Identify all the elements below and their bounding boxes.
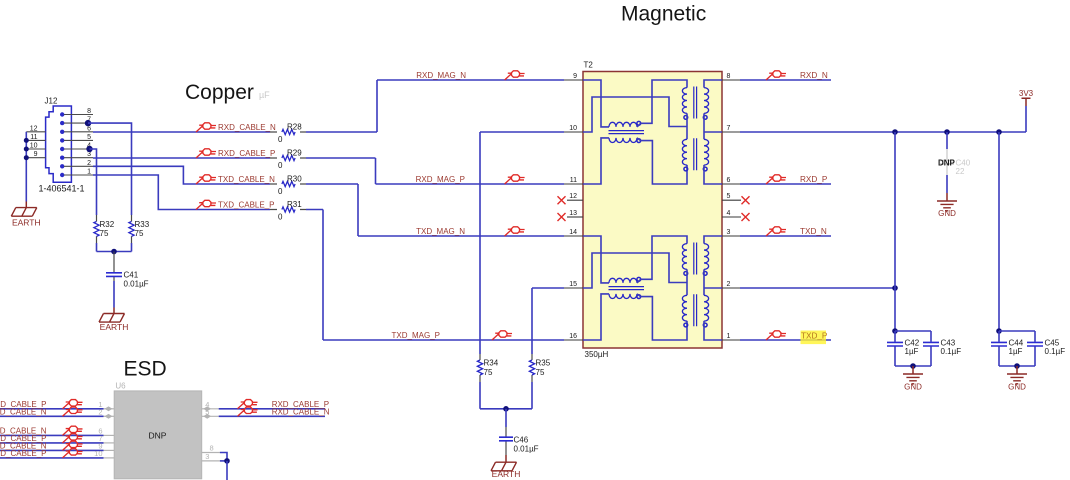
T2 pin 14 stub <box>564 235 583 237</box>
T2 pin 1 stub <box>722 339 740 341</box>
transformer primary upper winding <box>682 88 687 114</box>
resistor R30 0 ohm <box>270 183 306 185</box>
secondary upper polarity dot <box>703 116 707 120</box>
wire T2 pin 6 RXD_P <box>740 183 831 185</box>
junction J12 pin 11 on bus <box>24 138 29 143</box>
wire J12 pin 6 to R28 (RXD_CABLE_N) <box>93 131 270 133</box>
T2 pin 2 stub <box>722 287 740 289</box>
svg-text:TXD_CABLE_N: TXD_CABLE_N <box>218 175 275 184</box>
J12 pin 2 contact dot <box>60 164 64 168</box>
U6 pin 4 stub <box>202 408 219 410</box>
U6 pin 4 bidirectional marker <box>203 406 211 411</box>
off-page flag RXD_CABLE_N right <box>238 407 258 416</box>
svg-text:R35: R35 <box>536 358 551 367</box>
resistor R35 75 <box>531 354 533 382</box>
capacitor C42 1uF <box>894 331 896 342</box>
svg-text:DNP: DNP <box>149 430 167 440</box>
svg-text:GND: GND <box>938 209 956 218</box>
svg-text:1µF: 1µF <box>905 347 919 356</box>
J12 pin 4 contact dot <box>60 147 64 151</box>
svg-text:T2: T2 <box>584 61 594 70</box>
GND symbol below C42/C43 <box>903 374 923 384</box>
transformer core lower <box>694 138 697 170</box>
svg-text:TXD_CABLE_P: TXD_CABLE_P <box>218 201 274 210</box>
junction pin2/C42 vertical <box>892 285 898 291</box>
U6 pin 5 bidirectional marker <box>203 414 211 419</box>
svg-text:3: 3 <box>727 229 731 236</box>
wire R35 bottom <box>531 382 533 409</box>
wire C42/C43 bottom bridge <box>895 365 931 367</box>
capacitor C43 0.1uF <box>923 342 939 346</box>
wire choke bottom to transformer primary bottom <box>637 294 687 340</box>
wire riser RXD_CABLE_N to MAG row <box>376 80 378 132</box>
wire to bottom edge <box>226 461 228 480</box>
svg-text:R29: R29 <box>287 148 302 157</box>
EARTH symbol at J12 <box>11 208 37 217</box>
svg-text:2: 2 <box>87 160 91 167</box>
svg-text:RXD_P: RXD_P <box>800 175 828 184</box>
off-page flag RXD_CABLE_N (U6 pin 2) <box>63 407 83 416</box>
wire T2 pin 7 rail to 3V3 <box>740 106 1026 132</box>
suppressor U6 body (DNP) <box>114 391 202 479</box>
GND symbol below C40 <box>937 201 957 211</box>
connector J12 body <box>46 106 72 182</box>
resistor R32 75 <box>96 215 98 243</box>
svg-text:10: 10 <box>569 125 577 132</box>
secondary lower polarity dot <box>703 323 707 327</box>
wire R29 output <box>306 157 376 159</box>
svg-text:GND: GND <box>904 383 922 392</box>
resistor R29 0 ohm <box>270 157 306 159</box>
transformer primary lower winding <box>682 139 687 165</box>
svg-text:2: 2 <box>727 281 731 288</box>
no-connect X on T2 pin 12 <box>558 196 566 204</box>
primary upper polarity dot <box>684 272 688 276</box>
svg-text:RXD_MAG_P: RXD_MAG_P <box>416 175 465 184</box>
capacitor C46 0.01uF <box>505 409 507 427</box>
svg-text:9: 9 <box>34 151 38 158</box>
svg-text:R31: R31 <box>287 200 302 209</box>
svg-text:C46: C46 <box>514 435 529 444</box>
svg-text:1-406541-1: 1-406541-1 <box>39 184 85 194</box>
junction at J12 pin 7 <box>85 120 91 126</box>
transformer secondary upper winding <box>704 244 709 270</box>
wire riser TXD_CABLE_P to MAG row <box>322 210 324 341</box>
svg-text:2: 2 <box>98 408 102 417</box>
resistor R34 75 <box>479 354 481 382</box>
svg-text:1: 1 <box>87 169 91 176</box>
svg-text:12: 12 <box>569 193 577 200</box>
junction J12 pin 10 on bus <box>24 147 29 152</box>
svg-text:RXD_N: RXD_N <box>800 71 828 80</box>
wire RXD_CABLE_N to U6 pin 9 <box>0 449 104 451</box>
wire U6 pin 4 RXD_CABLE_P <box>219 408 325 410</box>
svg-text:11: 11 <box>30 134 37 141</box>
svg-text:R30: R30 <box>287 174 302 183</box>
junction J12 pin 9 on bus <box>24 155 29 160</box>
junction caps to GND <box>910 363 916 369</box>
J12 pin 1 stub <box>64 174 93 176</box>
J12 pin 8 contact dot <box>60 112 64 116</box>
wire T2 pin 10 center-tap down to R34 <box>480 132 564 354</box>
svg-text:R34: R34 <box>484 358 499 367</box>
primary lower polarity dot <box>684 323 688 327</box>
J12 pin 4 stub <box>64 148 93 150</box>
choke line-side bottom winding <box>609 294 637 299</box>
T2 pin 11 stub <box>564 183 583 185</box>
junction rail/C40 branch <box>944 129 950 135</box>
svg-text:J12: J12 <box>45 97 58 106</box>
choke line-side bottom winding <box>609 138 637 143</box>
T2 pin 6 stub <box>722 183 740 185</box>
svg-text:TXD_N: TXD_N <box>800 227 827 236</box>
wire J12 pin 2 to R30 (TXD_CABLE_N) <box>93 166 270 184</box>
wire C46 to earth <box>505 446 507 455</box>
wire TXD_MAG_P row <box>323 339 564 341</box>
transformer secondary upper winding <box>704 88 709 114</box>
resistor R28 0 ohm <box>270 131 306 133</box>
wire secondary center tap to pin 2 <box>704 269 722 295</box>
svg-text:9: 9 <box>573 73 577 80</box>
wire secondary center tap to pin 7 <box>704 113 722 139</box>
svg-text:C41: C41 <box>124 271 139 280</box>
svg-text:5: 5 <box>727 193 731 200</box>
off-page flag TXD_MAG_N <box>505 227 525 236</box>
highlight on TXD_P <box>801 331 827 345</box>
wire T2 pin 3 TXD_N <box>740 235 831 237</box>
choke top polarity dot <box>637 277 641 281</box>
J12 pin 2 stub <box>64 165 93 167</box>
svg-text:75: 75 <box>135 229 144 238</box>
svg-text:EARTH: EARTH <box>100 322 129 332</box>
svg-text:12: 12 <box>30 125 38 132</box>
off-page flag RXD_CABLE_P (U6 pin 10) <box>63 449 83 458</box>
wire T2 pin 2 to C42 branch <box>740 287 895 289</box>
T2 pin 15 stub <box>564 287 583 289</box>
svg-text:11: 11 <box>570 177 577 184</box>
wire J12 shield bus to earth <box>25 132 27 202</box>
choke bottom polarity dot <box>637 139 641 143</box>
wire R33 bottom <box>131 243 133 252</box>
J12 pin 7 stub <box>64 122 93 124</box>
svg-text:3V3: 3V3 <box>1019 89 1034 98</box>
choke line-side top winding <box>609 278 637 283</box>
svg-text:6: 6 <box>87 125 91 132</box>
off-page flag RXD_MAG_P <box>505 175 525 184</box>
wire T2 pin 15 center-tap down to R35 <box>532 288 564 354</box>
wire choke top to transformer primary top <box>637 80 687 127</box>
capacitor C44 1uF <box>998 331 1000 342</box>
transformer primary lower winding <box>682 295 687 321</box>
secondary upper polarity dot <box>703 272 707 276</box>
svg-text:RXD_CABLE_P: RXD_CABLE_P <box>218 149 275 158</box>
svg-text:4: 4 <box>727 210 731 217</box>
wire R34 bottom <box>479 382 481 409</box>
svg-text:10: 10 <box>30 143 38 150</box>
junction R32/R33 bridge <box>111 249 117 255</box>
choke bottom polarity dot <box>637 295 641 299</box>
wire RXD_MAG_N row <box>377 79 564 81</box>
off-page flag TXD_P <box>766 331 786 340</box>
wire C44/C45 bottom bridge <box>999 365 1035 367</box>
transformer primary upper winding <box>682 244 687 270</box>
wire U6 pin 3 <box>220 460 227 462</box>
off-page flag RXD_MAG_N <box>505 71 525 80</box>
svg-text:0.01µF: 0.01µF <box>514 445 539 454</box>
svg-text:0.01µF: 0.01µF <box>124 280 149 289</box>
svg-text:U6: U6 <box>115 382 126 391</box>
svg-text:GND: GND <box>1008 383 1026 392</box>
svg-text:0: 0 <box>278 213 283 222</box>
wire C41 to earth <box>113 281 115 308</box>
svg-text:RXD_CABLE_N: RXD_CABLE_N <box>0 408 47 417</box>
wire T2 pin 16 to choke bottom <box>583 294 609 340</box>
svg-text:0: 0 <box>278 187 283 196</box>
svg-text:15: 15 <box>569 281 577 288</box>
svg-text:0.1µF: 0.1µF <box>941 347 962 356</box>
wire C42/C43 top bridge <box>895 331 931 342</box>
off-page flag RXD_P <box>766 175 786 184</box>
off-page flag TXD_CABLE_N (U6 pin 6) <box>63 426 83 435</box>
svg-text:R32: R32 <box>100 220 115 229</box>
U6 pin 5 stub <box>202 415 219 417</box>
junction C42 top bridge <box>892 328 898 334</box>
svg-text:0.1µF: 0.1µF <box>1045 347 1066 356</box>
resistor R33 75 <box>131 215 133 243</box>
wire T2 pin 9 to choke <box>583 80 609 127</box>
svg-text:5: 5 <box>87 134 91 141</box>
svg-text:Magnetic: Magnetic <box>621 3 706 26</box>
junction at J12 pin 4 <box>86 146 92 152</box>
off-page flag RXD_N <box>766 71 786 80</box>
T2 pin 9 stub <box>564 79 583 81</box>
wire J12 pin 1 to R31 (TXD_CABLE_P) <box>93 175 270 210</box>
svg-text:DNP: DNP <box>938 158 956 167</box>
svg-text:R28: R28 <box>287 122 302 131</box>
junction rail/C42 branch <box>892 129 898 135</box>
transformer secondary lower winding <box>704 139 709 165</box>
wire U6 pin 8 down to pin 3 net <box>220 453 227 461</box>
choke core <box>609 287 645 290</box>
transformer core lower <box>694 294 697 326</box>
off-page flag TXD_CABLE_P <box>196 200 216 209</box>
no-connect X on T2 pin 5 <box>742 196 750 204</box>
wire T2 pin 8 RXD_N <box>740 79 831 81</box>
svg-text:8: 8 <box>87 108 91 115</box>
svg-text:µF: µF <box>259 90 270 100</box>
J12 pin 11 stub <box>26 139 45 141</box>
primary upper polarity dot <box>684 116 688 120</box>
J12 pin 12 stub <box>26 131 45 133</box>
junction U6 pins 8/3 <box>224 458 230 464</box>
svg-text:5: 5 <box>205 408 209 417</box>
wire TXD_CABLE_N to U6 pin 6 <box>0 434 104 436</box>
no-connect X on T2 pin 4 <box>742 213 750 221</box>
wire rail down to C44/C45 <box>998 132 1000 331</box>
J12 pin 5 stub <box>64 139 93 141</box>
transformer core upper <box>694 87 697 119</box>
wire RXD_CABLE_P to U6 pin 1 <box>0 408 104 410</box>
U6 pin 2 bidirectional marker <box>105 414 113 419</box>
U6 pin 8 stub <box>202 452 220 454</box>
EARTH symbol below C46 <box>491 462 517 471</box>
choke line-side top winding <box>609 122 637 127</box>
off-page flag RXD_CABLE_P right <box>238 400 258 409</box>
off-page flag TXD_MAG_P <box>492 331 512 340</box>
wire choke bottom to transformer primary bottom <box>637 138 687 184</box>
svg-text:ESD: ESD <box>124 358 167 381</box>
transformer secondary lower winding <box>704 295 709 321</box>
junction C44 top bridge <box>996 328 1002 334</box>
wire TXD_MAG_N row <box>358 235 564 237</box>
wire C44/C45 top bridge <box>999 331 1035 342</box>
T2 pin 4 stub <box>722 216 741 218</box>
U6 pin 1 bidirectional marker <box>105 406 113 411</box>
svg-text:TXD_MAG_P: TXD_MAG_P <box>392 331 440 340</box>
GND symbol below C44/C45 <box>1007 374 1027 384</box>
svg-text:75: 75 <box>536 368 545 377</box>
off-page flag TXD_CABLE_N <box>196 175 216 184</box>
off-page flag RXD_CABLE_P (U6 pin 1) <box>63 400 83 409</box>
wire J12 pin4 to R32 <box>90 149 97 215</box>
svg-text:RXD_MAG_N: RXD_MAG_N <box>416 71 466 80</box>
wire T2 pin 1 TXD_P <box>740 339 831 341</box>
capacitor C45 0.1uF <box>1027 342 1043 346</box>
wire T2 pin 11 to choke bottom <box>583 138 609 184</box>
svg-text:14: 14 <box>569 229 577 236</box>
secondary lower polarity dot <box>703 167 707 171</box>
svg-text:1µF: 1µF <box>1009 347 1023 356</box>
svg-text:RXD_CABLE_N: RXD_CABLE_N <box>272 408 330 417</box>
T2 pin 8 stub <box>722 79 740 81</box>
junction bridge to C46 <box>503 406 509 412</box>
wire riser RXD_CABLE_P to MAG row <box>375 158 377 184</box>
svg-text:RXD_CABLE_P: RXD_CABLE_P <box>0 449 47 458</box>
wire RXD_MAG_P row <box>376 183 565 185</box>
off-page flag TXD_N <box>766 227 786 236</box>
resistor R31 0 ohm <box>270 209 306 211</box>
svg-text:1: 1 <box>727 333 731 340</box>
transformer core upper <box>694 243 697 275</box>
J12 pin 5 contact dot <box>60 138 64 142</box>
wire choke top to transformer primary top <box>637 236 687 283</box>
choke core <box>609 131 645 134</box>
primary lower polarity dot <box>684 167 688 171</box>
wire secondary bottom to pin 6 <box>704 165 722 184</box>
wire secondary top to pin 8 <box>704 80 722 88</box>
svg-text:0: 0 <box>278 161 283 170</box>
T2 pin 5 stub <box>722 199 741 201</box>
J12 pin 6 contact dot <box>60 130 64 134</box>
wire riser TXD_CABLE_N to MAG row <box>357 184 359 236</box>
wire R31 output <box>306 209 323 211</box>
svg-text:3: 3 <box>87 151 91 158</box>
J12 pin 6 stub <box>64 131 93 133</box>
svg-text:13: 13 <box>569 210 577 217</box>
J12 pin 3 stub <box>64 157 93 159</box>
svg-text:0: 0 <box>278 135 283 144</box>
wire R28 output <box>306 131 377 133</box>
J12 pin 3 contact dot <box>60 156 64 160</box>
junction rail/C44 branch <box>996 129 1002 135</box>
wire RXD_CABLE_P to U6 pin 10 <box>0 457 104 459</box>
wire primary center tap <box>583 253 687 295</box>
J12 pin 9 stub <box>26 157 45 159</box>
transformer T2 body <box>583 72 722 349</box>
T2 pin 13 stub <box>567 216 583 218</box>
svg-text:8: 8 <box>727 73 731 80</box>
wire C40 to GND <box>946 175 948 193</box>
J12 pin 10 stub <box>26 148 45 150</box>
T2 pin 7 stub <box>722 131 740 133</box>
svg-text:350µH: 350µH <box>585 350 609 359</box>
off-page flag RXD_CABLE_N (U6 pin 9) <box>63 441 83 450</box>
svg-text:22: 22 <box>956 167 965 176</box>
wire secondary bottom to pin 1 <box>704 321 722 340</box>
choke top polarity dot <box>637 121 641 125</box>
svg-text:EARTH: EARTH <box>12 218 41 228</box>
svg-text:8: 8 <box>210 444 214 453</box>
svg-text:TXD_MAG_N: TXD_MAG_N <box>416 227 465 236</box>
capacitor C40 22 DNP (gray) <box>946 132 948 149</box>
svg-text:10: 10 <box>94 449 102 458</box>
svg-text:TXD_P: TXD_P <box>801 331 828 340</box>
svg-text:3: 3 <box>205 452 209 461</box>
junction caps to GND <box>1014 363 1020 369</box>
wire RXD_CABLE_N to U6 pin 2 <box>0 415 104 417</box>
wire R34/R35 bridge <box>480 408 532 410</box>
wire R30 output <box>306 183 358 185</box>
T2 pin 16 stub <box>564 339 583 341</box>
svg-text:16: 16 <box>569 333 577 340</box>
off-page flag RXD_CABLE_P <box>196 149 216 158</box>
wire J12 pin7 to R33 <box>88 123 132 215</box>
wire J12 pin 3 to R29 (RXD_CABLE_P) <box>93 157 270 159</box>
svg-text:R33: R33 <box>135 220 150 229</box>
svg-text:RXD_CABLE_N: RXD_CABLE_N <box>218 123 276 132</box>
no-connect X on T2 pin 13 <box>558 213 566 221</box>
T2 pin 12 stub <box>567 199 583 201</box>
svg-text:7: 7 <box>727 125 731 132</box>
svg-text:6: 6 <box>727 177 731 184</box>
wire TXD_CABLE_P to U6 pin 7 <box>0 442 104 444</box>
off-page flag TXD_CABLE_P (U6 pin 7) <box>63 434 83 443</box>
wire secondary top to pin 3 <box>704 236 722 244</box>
J12 pin 7 contact dot <box>60 121 64 125</box>
wire U6 pin 5 RXD_CABLE_N <box>219 415 325 417</box>
capacitor C41 0.01uF <box>113 252 115 282</box>
T2 pin 10 stub <box>564 131 583 133</box>
J12 pin 1 contact dot <box>60 173 64 177</box>
T2 pin 3 stub <box>722 235 740 237</box>
U6 pin 3 stub <box>202 460 220 462</box>
J12 pin 8 stub <box>64 114 93 116</box>
wire termination bridge to C41 <box>97 251 132 253</box>
wire R32 bottom <box>96 243 98 252</box>
wire rail down to C42/C43 <box>894 132 896 331</box>
wire T2 pin 14 to choke <box>583 236 609 283</box>
off-page flag RXD_CABLE_N <box>196 123 216 132</box>
svg-text:75: 75 <box>484 368 493 377</box>
svg-text:75: 75 <box>100 229 109 238</box>
svg-text:EARTH: EARTH <box>492 469 521 479</box>
svg-text:Copper: Copper <box>185 81 254 104</box>
wire primary center tap <box>583 97 687 139</box>
EARTH symbol below C41 <box>99 314 125 323</box>
